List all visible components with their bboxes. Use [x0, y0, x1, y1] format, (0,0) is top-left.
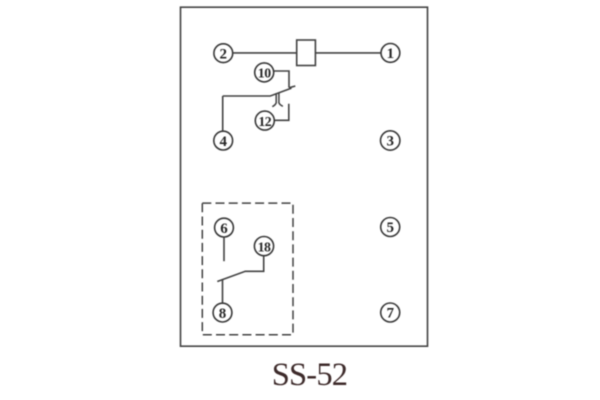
svg-text:6: 6	[220, 221, 228, 237]
svg-text:10: 10	[258, 66, 271, 81]
svg-text:8: 8	[219, 306, 227, 322]
svg-text:SS-52: SS-52	[272, 357, 347, 393]
svg-text:3: 3	[386, 134, 394, 150]
svg-text:2: 2	[220, 46, 228, 62]
svg-text:7: 7	[386, 306, 394, 322]
svg-text:18: 18	[258, 239, 271, 254]
svg-text:5: 5	[386, 220, 394, 236]
svg-text:12: 12	[258, 114, 271, 129]
svg-text:4: 4	[219, 134, 227, 150]
svg-text:1: 1	[387, 46, 395, 62]
